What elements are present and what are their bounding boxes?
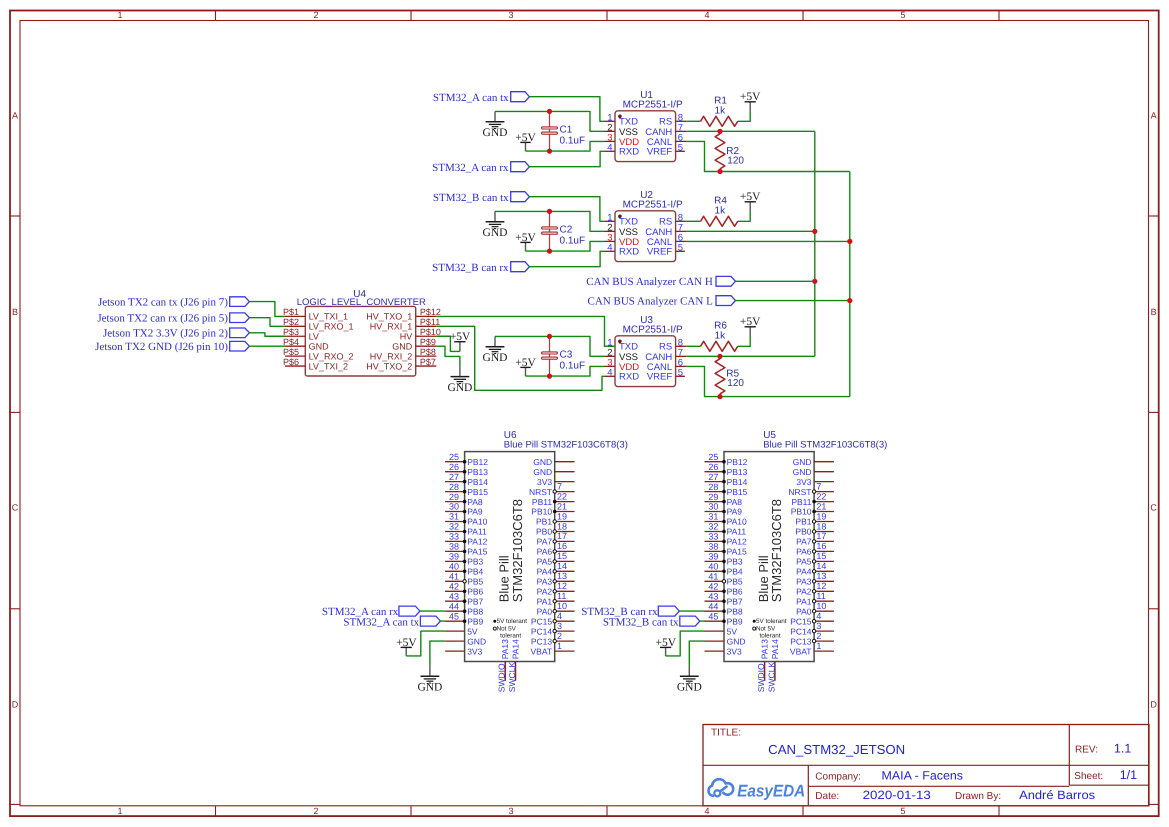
junction C3 top (547, 334, 552, 339)
svg-text:Sheet:: Sheet: (1074, 771, 1103, 782)
wire STM32_A can rx to U1 RXD (529, 151, 604, 166)
svg-text:PA5: PA5 (537, 557, 553, 567)
svg-text:PB13: PB13 (467, 467, 488, 477)
svg-text:45: 45 (449, 611, 459, 621)
svg-text:PB3: PB3 (727, 557, 743, 567)
svg-text:PA6: PA6 (537, 547, 553, 557)
svg-text:PB7: PB7 (727, 596, 743, 606)
wire Jetson can tx to U4 P$1 (249, 302, 285, 317)
svg-text:39: 39 (708, 552, 718, 562)
ground symbol near C2 (483, 211, 508, 239)
svg-text:PB4: PB4 (727, 567, 743, 577)
U6 pin 40 PB4 (445, 562, 483, 577)
svg-text:B: B (1151, 307, 1157, 317)
svg-text:PA0: PA0 (796, 606, 812, 616)
U5 pin 1 VBAT (790, 641, 834, 656)
U3 pin 2 VSS (605, 347, 639, 362)
svg-text:+5V: +5V (515, 232, 536, 244)
svg-text:26: 26 (708, 462, 718, 472)
svg-text:42: 42 (449, 582, 459, 592)
junction R5 bottom (717, 394, 722, 399)
svg-text:5V tolerant: 5V tolerant (497, 618, 528, 625)
capacitor C1 (542, 111, 585, 151)
svg-text:GND: GND (793, 467, 812, 477)
U5 pin 27 PB14 (705, 472, 748, 487)
svg-text:4: 4 (607, 367, 612, 378)
svg-text:PC13: PC13 (531, 636, 553, 646)
svg-text:3: 3 (508, 10, 513, 20)
svg-text:HV_RXI_2: HV_RXI_2 (370, 351, 413, 361)
+5V power flag above R4 (740, 191, 761, 211)
wire GND rail to U3 VSS (495, 336, 605, 356)
U5 pin 16 PA6 (796, 541, 834, 556)
wire STM32_B can rx to U5 PB8 (679, 610, 704, 612)
+5V power flag near C2 (515, 232, 536, 251)
U6 pin GND GND (533, 457, 574, 467)
svg-text:12: 12 (557, 581, 567, 591)
U1 pin 4 RXD (605, 142, 640, 157)
U6 pin 38 PA15 (445, 542, 488, 557)
svg-text:4: 4 (704, 806, 709, 816)
svg-text:7: 7 (816, 481, 821, 491)
junction CAN L flag / bus (847, 298, 852, 303)
U3 pin 4 RXD (605, 367, 640, 382)
resistor R5 body (715, 359, 725, 394)
svg-text:41: 41 (708, 572, 718, 582)
svg-text:GND: GND (417, 682, 442, 694)
op-amp/transceiver U2 MCP2551-I/P body (615, 211, 676, 262)
junction C3 bottom (547, 374, 552, 379)
U5 pin 32 PA11 (705, 522, 747, 537)
wire R6 to +5V (738, 336, 751, 346)
ground symbol below U5 (677, 666, 702, 694)
svg-text:42: 42 (708, 582, 718, 592)
U3 pin 6 CANL (647, 357, 687, 372)
svg-text:PA2: PA2 (796, 587, 812, 597)
svg-text:17: 17 (816, 531, 826, 541)
svg-text:25: 25 (449, 452, 459, 462)
U2 pin 5 VREF (647, 242, 685, 257)
U4 pin P$1 LV_TXI_1 (283, 307, 348, 322)
svg-text:14: 14 (557, 561, 567, 571)
svg-text:0.1uF: 0.1uF (560, 360, 586, 371)
U5 pin PA13 (SWDIO) (756, 639, 770, 692)
wire GND to U5 GND (689, 641, 704, 666)
+5V power flag above R1 (740, 91, 761, 111)
wire CANL bus vertical (849, 172, 851, 397)
svg-text:5: 5 (678, 242, 683, 253)
svg-text:26: 26 (449, 462, 459, 472)
wire U1 RS to R1 (687, 120, 701, 122)
svg-text:2: 2 (557, 631, 562, 641)
svg-text:GND: GND (483, 227, 508, 239)
svg-text:PB10: PB10 (531, 507, 552, 517)
svg-text:2: 2 (816, 631, 821, 641)
svg-text:RXD: RXD (619, 372, 639, 383)
svg-text:1.1: 1.1 (1114, 741, 1131, 755)
U5 pin 40 PB4 (705, 562, 743, 577)
resistor R4 body (701, 216, 738, 226)
EasyEDA logo cloud icon (709, 779, 734, 796)
svg-text:0.1uF: 0.1uF (560, 235, 586, 246)
junction C2 bottom (547, 249, 552, 254)
wire +5V rail to U1 VDD (526, 141, 605, 151)
svg-text:+5V: +5V (656, 637, 677, 649)
wire STM32_A can tx to U6 PB9 (440, 620, 445, 622)
svg-text:Blue Pill STM32F103C6T8(3): Blue Pill STM32F103C6T8(3) (504, 440, 628, 451)
svg-text:P$1: P$1 (283, 307, 299, 317)
svg-text:3: 3 (816, 621, 821, 631)
svg-text:PA6: PA6 (796, 547, 812, 557)
U1 pin 1 TXD (605, 112, 639, 127)
U5 pin 5V 5V (705, 626, 738, 636)
svg-text:PB13: PB13 (727, 467, 748, 477)
U6 pin 11 PA1 (537, 591, 575, 606)
U5 pin 3 PC14 (790, 621, 834, 636)
U5 pin 7 NRST (788, 481, 834, 496)
svg-text:PB14: PB14 (467, 477, 488, 487)
ground symbol near C1 (483, 111, 508, 139)
svg-text:CAN BUS Analyzer CAN L: CAN BUS Analyzer CAN L (588, 295, 714, 307)
U6 pin 22 PB11 (532, 491, 575, 506)
svg-text:15: 15 (816, 551, 826, 561)
U5 pin 41 PB5 (705, 572, 743, 587)
svg-text:EasyEDA: EasyEDA (737, 782, 805, 801)
wire U1 CANH to bus (687, 130, 815, 132)
U3 pin 1 TXD (605, 337, 639, 352)
U5 pin 26 PB13 (705, 462, 748, 477)
U5 pin 42 PB6 (705, 582, 743, 597)
wire Jetson 3.3V to U4 P$3 (249, 333, 285, 336)
capacitor C3 (542, 336, 585, 376)
wire STM32_A can tx to U1 TXD (529, 97, 604, 122)
svg-text:P$4: P$4 (283, 337, 299, 347)
svg-text:LV: LV (309, 332, 319, 342)
svg-text:C1: C1 (560, 125, 573, 136)
U5 pin GND GND (793, 457, 834, 467)
svg-text:tolerant: tolerant (500, 632, 521, 639)
svg-text:5: 5 (900, 806, 905, 816)
U4 pin P$10 HV (400, 327, 441, 342)
svg-text:LV_RXO_1: LV_RXO_1 (309, 322, 354, 332)
svg-text:PB1: PB1 (795, 517, 811, 527)
svg-text:RXD: RXD (619, 247, 639, 258)
U4 pin P$6 LV_TXI_2 (283, 357, 348, 372)
wire GND to U6 GND (430, 641, 445, 666)
svg-text:VREF: VREF (647, 372, 673, 383)
svg-text:13: 13 (557, 571, 567, 581)
resistor R6 body (701, 341, 738, 351)
svg-text:GND: GND (392, 342, 413, 352)
U4 pin P$12 HV_TXO_1 (366, 307, 441, 322)
U6 pin 27 PB14 (445, 472, 488, 487)
svg-text:PA4: PA4 (796, 567, 812, 577)
U6 pin 29 PA8 (445, 492, 483, 507)
svg-text:CAN BUS Analyzer CAN H: CAN BUS Analyzer CAN H (586, 276, 713, 288)
svg-text:+5V: +5V (515, 357, 536, 369)
svg-text:1k: 1k (715, 105, 727, 116)
svg-text:GND: GND (533, 457, 552, 467)
svg-text:NRST: NRST (529, 487, 552, 497)
svg-text:PA2: PA2 (537, 587, 553, 597)
svg-text:41: 41 (449, 572, 459, 582)
svg-text:GND: GND (483, 127, 508, 139)
border row labels left (12, 110, 19, 709)
svg-text:PA14: PA14 (511, 639, 521, 659)
svg-text:5: 5 (900, 10, 905, 20)
svg-text:PB6: PB6 (727, 587, 743, 597)
svg-text:HV: HV (400, 332, 413, 342)
svg-text:1k: 1k (715, 330, 727, 341)
wire R4 to +5V (738, 211, 751, 221)
svg-text:16: 16 (557, 541, 567, 551)
U1 pin-1 marker dot (618, 115, 622, 119)
wire STM32_B can tx to U5 PB9 (700, 620, 705, 622)
+5V power flag near C1 (515, 132, 536, 151)
svg-text:22: 22 (557, 491, 567, 501)
U5 pin 17 PA7 (796, 531, 834, 546)
wire STM32_B can rx to U2 RXD (529, 251, 604, 266)
junction CAN H flag / bus (812, 279, 817, 284)
U5 pin 14 PA4 (796, 561, 834, 576)
svg-text:5: 5 (678, 142, 683, 153)
svg-text:Jetson TX2 can tx (J26 pin 7): Jetson TX2 can tx (J26 pin 7) (98, 297, 228, 309)
wire CAN H flag to bus (736, 280, 815, 282)
U6 pin 13 PA3 (537, 571, 575, 586)
net flag STM32_B can rx (658, 606, 679, 616)
svg-text:MCP2551-I/P: MCP2551-I/P (623, 325, 683, 336)
svg-text:33: 33 (449, 532, 459, 542)
svg-text:0.1uF: 0.1uF (560, 135, 586, 146)
svg-text:PB15: PB15 (467, 487, 488, 497)
U5 pin 38 PA15 (705, 542, 748, 557)
U4 pin P$4 GND (283, 337, 329, 352)
svg-text:28: 28 (708, 482, 718, 492)
svg-text:PB11: PB11 (532, 497, 552, 507)
svg-text:STM32_A can rx: STM32_A can rx (432, 162, 509, 174)
svg-text:18: 18 (557, 521, 567, 531)
svg-text:40: 40 (449, 562, 459, 572)
wire CANH bus vertical (814, 131, 816, 356)
wire U2 RS to R4 (687, 220, 701, 222)
U6 pin 18 PB0 (536, 521, 574, 536)
svg-text:16: 16 (816, 541, 826, 551)
U6 pin 42 PB6 (445, 582, 483, 597)
junction R5 top (717, 354, 722, 359)
wire CAN L flag to bus (736, 300, 850, 302)
svg-text:tolerant: tolerant (760, 632, 781, 639)
svg-text:VBAT: VBAT (531, 646, 553, 656)
U6 pin GND GND (445, 636, 486, 646)
U5 pin 45 PB9 (705, 611, 743, 626)
svg-text:15: 15 (557, 551, 567, 561)
svg-text:STM32_B can tx: STM32_B can tx (433, 192, 509, 204)
svg-text:PB5: PB5 (467, 577, 483, 587)
border column labels bottom (117, 806, 905, 816)
svg-text:PA1: PA1 (796, 596, 812, 606)
svg-text:27: 27 (708, 472, 718, 482)
svg-text:PC14: PC14 (790, 626, 812, 636)
U6 pin 16 PA6 (537, 541, 575, 556)
resistor R5 bottom lead (719, 394, 721, 397)
svg-text:32: 32 (449, 522, 459, 532)
net flag STM32_A can rx (511, 162, 530, 172)
svg-text:PA11: PA11 (467, 527, 487, 537)
U2 pin 1 TXD (605, 212, 639, 227)
U4 pin P$2 LV_RXO_1 (283, 317, 353, 332)
U5 pin GND GND (793, 467, 834, 477)
svg-text:B: B (12, 307, 18, 317)
svg-text:GND: GND (727, 636, 746, 646)
U2 pin-1 marker dot (618, 215, 622, 219)
svg-text:PB12: PB12 (467, 457, 488, 467)
svg-text:Company:: Company: (815, 772, 861, 783)
net flag STM32_A can tx (420, 616, 440, 626)
svg-text:43: 43 (449, 591, 459, 601)
U4 pin P$3 LV (283, 327, 319, 342)
svg-text:2: 2 (313, 10, 318, 20)
svg-text:PA13: PA13 (760, 639, 770, 659)
svg-text:PA10: PA10 (727, 517, 747, 527)
U1 pin 2 VSS (605, 122, 639, 137)
svg-text:12: 12 (816, 581, 826, 591)
wire +5V to U6 5V (406, 631, 445, 656)
svg-text:27: 27 (449, 472, 459, 482)
svg-text:Blue Pill STM32F103C6T8(3): Blue Pill STM32F103C6T8(3) (763, 440, 887, 451)
U1 pin 7 CANH (645, 122, 686, 137)
junction C2 top (547, 209, 552, 214)
U6 pin 19 PB1 (536, 511, 574, 526)
U6 pin 5V 5V (445, 626, 478, 636)
svg-text:+5V: +5V (740, 91, 761, 103)
svg-text:PB6: PB6 (467, 587, 483, 597)
svg-text:1: 1 (117, 10, 122, 20)
net flag STM32_B can rx (511, 262, 530, 272)
op-amp/transceiver U3 MCP2551-I/P body (615, 336, 676, 387)
svg-text:+5V: +5V (450, 331, 471, 343)
wire +5V rail to U3 VDD (526, 366, 605, 376)
U2 pin 4 RXD (605, 242, 640, 257)
svg-text:MCP2551-I/P: MCP2551-I/P (623, 200, 683, 211)
U6 pin 1 VBAT (531, 641, 575, 656)
svg-text:33: 33 (708, 532, 718, 542)
svg-text:SWDIO: SWDIO (497, 663, 507, 692)
+5V power flag below U6 (396, 637, 417, 656)
border row ticks right (1149, 216, 1159, 804)
border column ticks top (216, 11, 1000, 21)
U4 pin P$8 HV_RXI_2 (370, 347, 437, 362)
svg-text:PA3: PA3 (796, 577, 812, 587)
U1 pin 3 VDD (605, 132, 640, 147)
U5 pin 21 PB10 (791, 501, 834, 516)
U6 pin 32 PA11 (445, 522, 487, 537)
U5 pin 18 PB0 (795, 521, 833, 536)
svg-text:21: 21 (557, 501, 567, 511)
svg-text:PA13: PA13 (500, 639, 510, 659)
U5 pin 44 PB8 (705, 601, 743, 616)
svg-text:HV_TXO_1: HV_TXO_1 (366, 312, 412, 322)
U5 pin 33 PA12 (705, 532, 748, 547)
wire U3 RS to R6 (687, 345, 701, 347)
U1 pin 6 CANL (647, 132, 687, 147)
svg-text:PB8: PB8 (467, 606, 483, 616)
U5 pin GND GND (705, 636, 746, 646)
wire STM32_A can rx to U6 PB8 (420, 610, 445, 612)
U6 pin 28 PB15 (445, 482, 488, 497)
U6 pin 43 PB7 (445, 591, 483, 606)
U2 pin 6 CANL (647, 232, 687, 247)
svg-text:1: 1 (117, 806, 122, 816)
op-amp/transceiver U1 MCP2551-I/P body (615, 111, 676, 162)
svg-text:D: D (12, 700, 19, 710)
U6 pin 45 PB9 (445, 611, 483, 626)
svg-text:P$7: P$7 (420, 357, 436, 367)
wire U4 P$11 to U3 RXD (436, 326, 604, 390)
svg-text:21: 21 (816, 501, 826, 511)
svg-text:STM32_B can tx: STM32_B can tx (603, 616, 679, 628)
svg-text:1: 1 (816, 641, 821, 651)
svg-text:3V3: 3V3 (727, 646, 742, 656)
svg-text:PA9: PA9 (467, 507, 483, 517)
svg-text:10: 10 (816, 601, 826, 611)
resistor R2 body (715, 134, 725, 169)
U6 pin 3V3 3V3 (445, 646, 482, 656)
U5 pin 10 PA0 (796, 601, 834, 616)
U6 pin 17 PA7 (537, 531, 575, 546)
U6 pin 7 NRST (529, 481, 575, 496)
U5 pin 25 PB12 (705, 452, 748, 467)
net flag CAN BUS Analyzer CAN H (716, 276, 736, 286)
svg-text:120: 120 (727, 156, 744, 167)
net flag CAN BUS Analyzer CAN L (716, 296, 736, 306)
svg-text:GND: GND (309, 342, 330, 352)
svg-text:STM32_A can tx: STM32_A can tx (343, 616, 419, 628)
svg-text:5V: 5V (467, 626, 478, 636)
module U6 Blue Pill STM32F103C6T8 body (465, 452, 555, 662)
svg-text:PB12: PB12 (727, 457, 748, 467)
net flag Jetson TX2 3.3V (J26 pin 2) (230, 328, 250, 338)
svg-text:C: C (12, 503, 19, 513)
resistor R1 body (701, 116, 738, 126)
U5 pin 3V3 3V3 (705, 646, 742, 656)
svg-text:PA12: PA12 (467, 537, 487, 547)
junction U2 CANH / bus (812, 229, 817, 234)
capacitor C2 (542, 211, 585, 251)
svg-text:+5V: +5V (515, 132, 536, 144)
svg-text:PB3: PB3 (467, 557, 483, 567)
net flag STM32_B can tx (511, 192, 530, 202)
wire U4 P$10 to +5V (436, 336, 460, 351)
svg-text:40: 40 (708, 562, 718, 572)
svg-text:PB14: PB14 (727, 477, 748, 487)
wire R1 to +5V (738, 111, 751, 121)
svg-text:VREF: VREF (647, 147, 673, 158)
svg-text:STM32_A can tx: STM32_A can tx (433, 92, 509, 104)
U6 pin GND GND (533, 467, 574, 477)
svg-text:SWCLK: SWCLK (766, 662, 776, 693)
wire Jetson GND to U4 P$4 (249, 345, 285, 347)
svg-text:25: 25 (708, 452, 718, 462)
svg-text:GND: GND (677, 682, 702, 694)
svg-text:38: 38 (708, 542, 718, 552)
svg-text:PB9: PB9 (467, 616, 483, 626)
svg-text:LV_TXI_2: LV_TXI_2 (309, 361, 348, 371)
svg-text:43: 43 (708, 591, 718, 601)
ground symbol below U6 (417, 666, 442, 694)
U5 pin 4 PC15 (790, 611, 834, 626)
svg-text:4: 4 (557, 611, 562, 621)
svg-text:STM32F103C6T8: STM32F103C6T8 (769, 499, 784, 602)
